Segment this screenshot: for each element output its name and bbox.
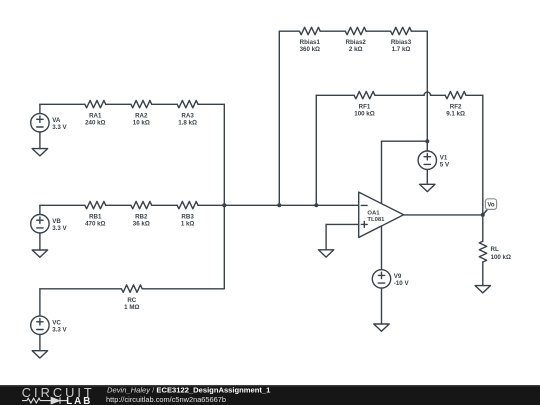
voltage source VB bbox=[31, 205, 49, 250]
wire RB3 to op-amp inverting input bbox=[198, 204, 359, 206]
label RB3 value bbox=[181, 213, 195, 227]
voltage source VA bbox=[31, 104, 49, 148]
wire RF2 to right corner bbox=[466, 94, 483, 96]
wire vertical right of RA/RC rows bbox=[223, 104, 225, 288]
svg-text:Devin_Haley / ECE3122_DesignAs: Devin_Haley / ECE3122_DesignAssignment_1 bbox=[107, 386, 271, 395]
resistor Rbias3 bbox=[391, 27, 412, 34]
ground at non-inverting input bbox=[318, 250, 333, 257]
voltage source VC bbox=[31, 289, 49, 351]
svg-text:http://circuitlab.com/c5nw2na6: http://circuitlab.com/c5nw2na65667b bbox=[106, 395, 226, 404]
wire RB2 to RB3 bbox=[152, 204, 178, 206]
svg-text:VB: VB bbox=[52, 218, 61, 225]
svg-text:36 kΩ: 36 kΩ bbox=[133, 220, 150, 227]
svg-text:9.1 kΩ: 9.1 kΩ bbox=[446, 110, 465, 117]
svg-text:-10 V: -10 V bbox=[394, 280, 410, 287]
wire op-amp positive supply vertical bbox=[381, 141, 383, 203]
label VB value bbox=[52, 218, 67, 232]
svg-text:1 kΩ: 1 kΩ bbox=[181, 220, 195, 227]
label RA1 value bbox=[85, 112, 105, 126]
label Rbias2 value bbox=[346, 39, 367, 53]
svg-text:V1: V1 bbox=[440, 155, 448, 162]
svg-text:3.3 V: 3.3 V bbox=[52, 124, 67, 131]
wire row B from VB to RB1 bbox=[40, 204, 85, 206]
wire V1 row to op-amp positive supply bbox=[382, 140, 428, 142]
wire op-amp negative supply vertical bbox=[381, 226, 383, 270]
label V1 value bbox=[440, 155, 450, 169]
wire Rbias3 to right corner bbox=[411, 30, 427, 32]
wire RA2 to RA3 bbox=[152, 103, 178, 105]
footer CircuitLab logo bbox=[22, 385, 95, 405]
wire op-amp non-inverting input to ground bbox=[326, 224, 359, 249]
label RF1 value bbox=[354, 103, 374, 117]
node junction dot at RF1 tie bbox=[314, 203, 318, 207]
resistor RB3 bbox=[177, 201, 198, 208]
ground below V1 bbox=[420, 184, 435, 191]
label RL value bbox=[491, 246, 511, 261]
resistor Rbias1 bbox=[299, 27, 320, 34]
svg-text:RA2: RA2 bbox=[135, 112, 148, 119]
svg-text:Vo: Vo bbox=[487, 203, 495, 209]
svg-text:2 kΩ: 2 kΩ bbox=[349, 46, 363, 53]
svg-text:3.3 V: 3.3 V bbox=[52, 327, 67, 334]
wire Rbias1 to Rbias2 bbox=[320, 30, 345, 32]
svg-text:1.8 kΩ: 1.8 kΩ bbox=[178, 119, 197, 126]
svg-text:10 kΩ: 10 kΩ bbox=[133, 119, 150, 126]
label Rbias3 value bbox=[391, 39, 412, 53]
svg-text:240 kΩ: 240 kΩ bbox=[85, 119, 105, 126]
label RA2 value bbox=[133, 112, 150, 126]
wire row C from VC to RC bbox=[40, 288, 122, 290]
wire op-amp output to load node bbox=[404, 214, 483, 216]
svg-text:RL: RL bbox=[491, 246, 499, 253]
label OA1 TL081 bbox=[367, 210, 385, 223]
wire top bias rail left segment bbox=[279, 30, 299, 32]
svg-text:RA1: RA1 bbox=[89, 112, 102, 119]
resistor RF1 bbox=[354, 91, 375, 98]
svg-text:1.7 kΩ: 1.7 kΩ bbox=[392, 46, 411, 53]
svg-text:100 kΩ: 100 kΩ bbox=[491, 254, 511, 261]
label VA value bbox=[52, 117, 67, 131]
svg-text:Rbias1: Rbias1 bbox=[300, 39, 321, 46]
ground below VA bbox=[32, 149, 47, 156]
svg-text:1 MΩ: 1 MΩ bbox=[124, 304, 139, 311]
wire row A from VA to RA1 bbox=[40, 103, 85, 105]
svg-text:RC: RC bbox=[127, 297, 136, 304]
svg-text:RB2: RB2 bbox=[135, 213, 148, 220]
resistor RA3 bbox=[177, 100, 198, 107]
wire crossover hop over vertical rail bbox=[424, 92, 430, 95]
resistor RA1 bbox=[85, 100, 106, 107]
wire vertical bias rail left down to inverting node bbox=[278, 31, 280, 205]
svg-text:OA1: OA1 bbox=[367, 210, 380, 216]
op-amp OA1 bbox=[359, 192, 404, 237]
svg-text:Rbias3: Rbias3 bbox=[391, 39, 412, 46]
wire hop to RF2 bbox=[431, 94, 446, 96]
wire RF1 left vertical down to inverting node bbox=[315, 95, 317, 205]
wire RA1 to RA2 bbox=[106, 103, 131, 105]
voltage source V1 bbox=[418, 141, 436, 184]
wire right vertical RF2 down to output node bbox=[482, 95, 484, 215]
ground below VB bbox=[32, 250, 47, 257]
svg-text:3.3 V: 3.3 V bbox=[52, 225, 67, 232]
wire RF1 to crossover hop bbox=[375, 94, 424, 96]
label RC value bbox=[124, 297, 139, 311]
label VC value bbox=[52, 320, 67, 334]
ground below RL bbox=[475, 286, 490, 293]
footer bar bbox=[0, 385, 540, 405]
svg-text:LAB: LAB bbox=[66, 396, 92, 405]
wire vertical bias rail right down to V1 node bbox=[426, 31, 428, 141]
label RB2 value bbox=[133, 213, 150, 227]
label RB1 value bbox=[85, 213, 105, 227]
wire Rbias2 to Rbias3 bbox=[366, 30, 391, 32]
wire RB1 to RB2 bbox=[106, 204, 131, 206]
label RA3 value bbox=[178, 112, 197, 126]
svg-text:RB3: RB3 bbox=[181, 213, 194, 220]
svg-text:RF1: RF1 bbox=[359, 103, 371, 110]
svg-text:470 kΩ: 470 kΩ bbox=[85, 220, 105, 227]
wire RF row left segment bbox=[316, 94, 354, 96]
label V9 value bbox=[394, 273, 410, 287]
svg-text:VC: VC bbox=[52, 320, 61, 327]
resistor RB1 bbox=[85, 201, 106, 208]
wire RA3 to right corner bbox=[198, 103, 224, 105]
node junction dot at output node bbox=[481, 213, 485, 217]
voltage source V9 bbox=[372, 270, 390, 324]
resistor Rbias2 bbox=[345, 27, 366, 34]
svg-text:RF2: RF2 bbox=[450, 103, 462, 110]
svg-text:RA3: RA3 bbox=[181, 112, 194, 119]
wire output node down to RL bbox=[482, 215, 484, 241]
resistor RA2 bbox=[131, 100, 152, 107]
svg-text:100 kΩ: 100 kΩ bbox=[354, 110, 374, 117]
label RF2 value bbox=[446, 103, 465, 117]
resistor RF2 bbox=[445, 91, 466, 98]
ground below VC bbox=[32, 351, 47, 358]
svg-text:RB1: RB1 bbox=[89, 213, 102, 220]
svg-text:5 V: 5 V bbox=[440, 162, 450, 169]
node Vo flag box bbox=[485, 199, 496, 210]
svg-text:360 kΩ: 360 kΩ bbox=[300, 46, 320, 53]
svg-text:TL081: TL081 bbox=[367, 217, 385, 223]
resistor RL bbox=[479, 241, 486, 262]
node Vo flag connector bbox=[483, 210, 487, 215]
resistor RB2 bbox=[131, 201, 152, 208]
svg-text:VA: VA bbox=[52, 117, 61, 124]
wire RC to right corner bbox=[142, 288, 224, 290]
node junction dot at V1 supply tie bbox=[425, 139, 429, 143]
svg-text:V9: V9 bbox=[394, 273, 402, 280]
resistor RC bbox=[121, 285, 142, 292]
label Rbias1 value bbox=[300, 39, 321, 53]
ground below V9 bbox=[374, 324, 389, 331]
wire RL to ground bbox=[482, 262, 484, 286]
svg-text:Rbias2: Rbias2 bbox=[346, 39, 367, 46]
node junction dot at bias rail tie bbox=[277, 203, 281, 207]
node junction dot at RA/RB/RC tie bbox=[222, 203, 226, 207]
